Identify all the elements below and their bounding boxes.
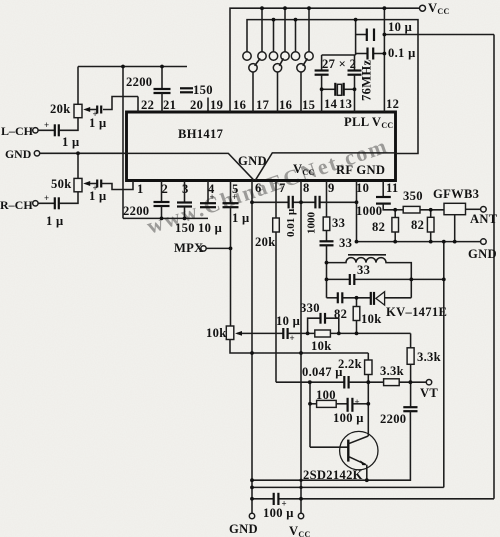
svg-text:33: 33 — [339, 236, 352, 250]
svg-text:L–CH: L–CH — [1, 124, 34, 138]
svg-text:R–CH: R–CH — [0, 198, 33, 212]
svg-text:22: 22 — [141, 98, 154, 112]
svg-text:+: + — [290, 333, 295, 343]
svg-text:+: + — [44, 120, 49, 130]
svg-text:2.2k: 2.2k — [338, 357, 362, 371]
svg-text:6: 6 — [255, 181, 262, 195]
svg-text:27 × 2: 27 × 2 — [322, 57, 356, 71]
svg-text:17: 17 — [256, 98, 269, 112]
svg-text:0.1 μ: 0.1 μ — [388, 46, 416, 60]
svg-text:10 μ: 10 μ — [198, 221, 222, 235]
svg-text:KV–1471E: KV–1471E — [386, 305, 447, 319]
svg-text:+: + — [44, 193, 49, 203]
svg-text:2200: 2200 — [123, 204, 149, 218]
svg-text:19: 19 — [210, 98, 223, 112]
svg-text:GND: GND — [238, 154, 267, 168]
svg-text:GND: GND — [468, 247, 497, 261]
svg-text:BH1417: BH1417 — [178, 127, 223, 141]
svg-text:2SD2142K: 2SD2142K — [303, 468, 363, 482]
svg-text:10k: 10k — [206, 326, 227, 340]
svg-text:MPX: MPX — [174, 241, 204, 255]
svg-text:14: 14 — [324, 97, 338, 111]
svg-text:82: 82 — [411, 218, 424, 232]
svg-text:VT: VT — [420, 386, 438, 400]
svg-text:16: 16 — [233, 98, 246, 112]
svg-text:330: 330 — [300, 301, 320, 315]
svg-text:150: 150 — [193, 83, 213, 97]
svg-text:1 μ: 1 μ — [62, 135, 80, 149]
svg-text:1: 1 — [137, 182, 144, 196]
svg-text:RF GND: RF GND — [336, 163, 385, 177]
svg-text:10k: 10k — [361, 312, 382, 326]
svg-text:10: 10 — [356, 181, 369, 195]
svg-text:16: 16 — [279, 98, 292, 112]
svg-text:0.01 μ: 0.01 μ — [285, 208, 297, 237]
svg-text:3.3k: 3.3k — [417, 350, 441, 364]
svg-text:10k: 10k — [311, 339, 332, 353]
svg-text:33: 33 — [357, 263, 370, 277]
svg-text:+: + — [232, 192, 237, 202]
svg-text:GFWB3: GFWB3 — [433, 187, 479, 201]
svg-text:11: 11 — [386, 181, 399, 195]
svg-text:GND: GND — [229, 522, 258, 536]
svg-text:150: 150 — [175, 221, 195, 235]
svg-text:10 μ: 10 μ — [388, 20, 412, 34]
svg-text:15: 15 — [302, 98, 315, 112]
svg-text:+: + — [210, 192, 215, 202]
svg-text:1000: 1000 — [306, 212, 318, 235]
svg-text:76MHz: 76MHz — [360, 60, 374, 101]
svg-text:33: 33 — [332, 216, 345, 230]
svg-text:2: 2 — [162, 182, 169, 196]
svg-text:2200: 2200 — [380, 412, 406, 426]
svg-text:12: 12 — [386, 97, 399, 111]
svg-text:2200: 2200 — [126, 75, 152, 89]
svg-text:21: 21 — [163, 98, 176, 112]
svg-text:100 μ: 100 μ — [333, 411, 364, 425]
svg-text:0.047 μ: 0.047 μ — [302, 365, 343, 379]
svg-text:1 μ: 1 μ — [46, 214, 64, 228]
svg-text:1 μ: 1 μ — [89, 189, 107, 203]
svg-text:3.3k: 3.3k — [380, 364, 404, 378]
svg-text:20k: 20k — [255, 235, 276, 249]
svg-text:82: 82 — [372, 220, 385, 234]
svg-text:GND: GND — [5, 147, 31, 161]
svg-text:20: 20 — [190, 98, 203, 112]
svg-text:9: 9 — [328, 181, 335, 195]
svg-text:50k: 50k — [51, 177, 72, 191]
svg-text:8: 8 — [303, 181, 310, 195]
svg-text:20k: 20k — [50, 102, 71, 116]
svg-text:10 μ: 10 μ — [276, 314, 300, 328]
svg-text:3: 3 — [182, 182, 189, 196]
svg-text:7: 7 — [279, 181, 286, 195]
svg-text:ANT: ANT — [470, 212, 498, 226]
svg-text:100 μ: 100 μ — [263, 506, 294, 520]
svg-text:1000: 1000 — [356, 204, 382, 218]
svg-text:1 μ: 1 μ — [89, 116, 107, 130]
svg-text:350: 350 — [403, 189, 423, 203]
svg-text:100: 100 — [316, 388, 336, 402]
svg-text:13: 13 — [339, 97, 352, 111]
svg-text:+: + — [355, 397, 360, 407]
svg-text:1 μ: 1 μ — [232, 211, 250, 225]
